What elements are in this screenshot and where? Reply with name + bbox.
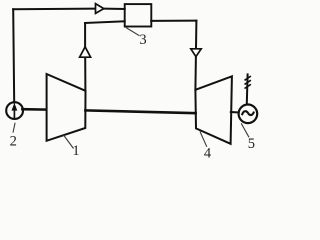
svg-text:1: 1: [72, 143, 79, 159]
svg-text:3: 3: [139, 32, 146, 48]
svg-text:2: 2: [10, 133, 17, 149]
svg-text:5: 5: [248, 136, 255, 152]
svg-text:4: 4: [204, 146, 212, 159]
